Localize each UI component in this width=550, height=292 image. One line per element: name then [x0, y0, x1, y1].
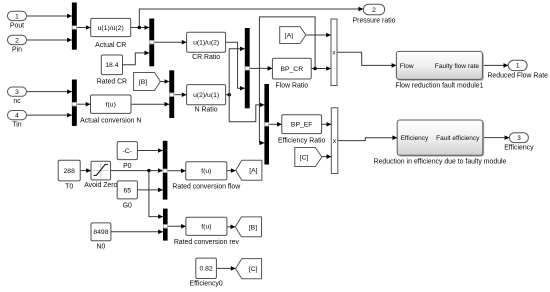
svg-text:Efficiency: Efficiency — [504, 145, 534, 152]
svg-text:N0: N0 — [97, 243, 106, 250]
svg-text:288: 288 — [64, 168, 76, 175]
wire Product1 to Flow subsystem — [337, 52, 396, 65]
svg-text:Reduction in efficiency due to: Reduction in efficiency due to faulty mo… — [374, 158, 507, 165]
wire Rated CR to Mux3 — [123, 53, 150, 65]
svg-text:P0: P0 — [123, 163, 132, 170]
wire Flow subsystem to outport 1 — [482, 64, 508, 66]
svg-text:1: 1 — [15, 13, 19, 20]
wire Rated conversion rev to Goto [B] — [227, 226, 235, 228]
goto tag [C] — [236, 259, 262, 279]
svg-text:Avoid Zero: Avoid Zero — [84, 182, 117, 189]
mux Mux7 (P0, T0, G0) — [163, 141, 168, 200]
svg-text:Tin: Tin — [12, 122, 21, 129]
svg-text:Rated conversion flow: Rated conversion flow — [172, 184, 240, 191]
junction on Avoid Zero output — [147, 169, 150, 172]
svg-text:Actual conversion N: Actual conversion N — [80, 117, 141, 124]
svg-text:[B]: [B] — [139, 79, 147, 86]
junction on N Ratio output — [228, 93, 231, 96]
svg-text:4: 4 — [15, 112, 19, 119]
wire G0 to Mux7 — [137, 189, 162, 191]
wire Tin to Mux2 — [27, 114, 72, 116]
wire Avoid Zero down to Mux8 — [149, 171, 163, 217]
svg-text:BP_EF: BP_EF — [291, 122, 313, 129]
fcn block N Ratio — [187, 85, 226, 105]
from tag [C] — [295, 148, 322, 167]
svg-text:Pout: Pout — [10, 22, 24, 29]
from tag [B] — [134, 73, 161, 91]
outport 1 Reduced Flow Rate — [508, 60, 527, 70]
mux Mux4 ([B], conversion N) — [169, 70, 174, 118]
lookup block BP_CR — [272, 58, 311, 79]
constant T0 (288) — [58, 160, 80, 181]
mux Mux5 (N Ratio, CR Ratio) — [245, 28, 250, 108]
svg-text:65: 65 — [124, 187, 132, 194]
svg-text:u(1)/u(2): u(1)/u(2) — [98, 25, 124, 32]
saturation block Avoid Zero — [91, 161, 111, 180]
from tag [A] — [280, 27, 306, 44]
wire Pin to Mux1 — [27, 39, 72, 41]
wire Efficiency0 to Goto [C] — [216, 267, 235, 269]
wire Efficiency subsystem to outport 3 — [483, 137, 510, 139]
svg-text:Fault efficiency: Fault efficiency — [436, 135, 480, 142]
constant N0 (8498) — [91, 223, 111, 241]
wire Rated conversion flow to Goto [A] — [227, 170, 236, 172]
junction on Actual CR output — [138, 26, 141, 29]
svg-text:Actual CR: Actual CR — [95, 42, 126, 49]
wire Actual conversion N to Mux4 — [131, 103, 169, 105]
svg-text:N Ratio: N Ratio — [195, 107, 218, 114]
subsystem Reduction in efficiency due to faulty module — [399, 121, 485, 156]
svg-text:u(1)/u(2): u(1)/u(2) — [193, 40, 219, 47]
mux Mux2 (nc,Tin) — [72, 80, 77, 126]
svg-text:2: 2 — [372, 7, 376, 14]
wire branch to Pressure ratio outport — [139, 9, 363, 28]
wire P0 to Mux7 — [137, 150, 162, 152]
wire BP_EF to Product2 — [322, 123, 332, 125]
wire T0 to Avoid Zero — [80, 170, 91, 172]
wire Actual CR to Mux3 — [131, 27, 150, 29]
svg-text:Efficiency Ratio: Efficiency Ratio — [278, 137, 326, 144]
wire Mux2 to Actual conversion N — [77, 103, 91, 105]
constant G0 (65) — [117, 181, 137, 199]
svg-text:[A]: [A] — [285, 32, 293, 39]
constant Efficiency0 (0.82) — [196, 258, 217, 278]
subsystem Flow reduction fault module1 — [398, 53, 484, 81]
wire Mux6 to BP_EF — [269, 123, 282, 125]
product block Product2 — [331, 108, 338, 174]
svg-text:Flow reduction fault module1: Flow reduction fault module1 — [395, 83, 483, 90]
fcn block Rated conversion rev — [186, 217, 227, 235]
svg-text:-C-: -C- — [123, 148, 132, 155]
wire From [A] to Product1 — [306, 34, 331, 36]
svg-text:[C]: [C] — [300, 154, 309, 161]
svg-text:CR Ratio: CR Ratio — [192, 54, 220, 61]
wire Pout to Mux1 — [27, 15, 72, 17]
goto tag [B] — [235, 217, 261, 237]
svg-text:3: 3 — [15, 89, 19, 96]
inport 4 Tin — [8, 111, 27, 120]
wire N Ratio zigzag to Mux6 upper input — [229, 95, 264, 122]
mux Mux6 (N Ratio, Flow Ratio) — [264, 84, 269, 165]
wire N Ratio output stub — [226, 94, 230, 96]
svg-text:T0: T0 — [65, 184, 73, 191]
wire Mux7 to Rated conversion flow — [167, 170, 185, 172]
svg-text:f(u): f(u) — [201, 224, 211, 231]
svg-text:G0: G0 — [123, 202, 132, 209]
svg-text:[C]: [C] — [249, 266, 258, 273]
constant P0 (-C-) — [117, 142, 137, 160]
svg-text:Faulty flow rate: Faulty flow rate — [435, 63, 479, 70]
wire BP_CR loop to Mux6 lower input — [259, 17, 315, 143]
wire N Ratio up to Mux5 upper input — [229, 49, 245, 95]
svg-text:2: 2 — [15, 37, 19, 44]
fcn block Actual conversion N — [91, 95, 132, 113]
svg-text:3: 3 — [517, 135, 521, 142]
svg-text:Efficiency0: Efficiency0 — [189, 281, 222, 288]
wire BP_CR to Product1 — [311, 68, 331, 70]
wire From [C] to Product2 — [322, 156, 331, 158]
wire Avoid Zero to Mux7 — [111, 170, 163, 172]
svg-text:Flow Ratio: Flow Ratio — [276, 82, 309, 89]
mux Mux3 (Actual CR, Rated CR) — [149, 19, 154, 67]
wire Mux4 to N Ratio — [174, 94, 186, 96]
svg-text:BP_CR: BP_CR — [280, 66, 303, 73]
svg-text:Rated CR: Rated CR — [97, 78, 127, 85]
wire From [B] to Mux4 — [160, 81, 169, 83]
svg-text:18.4: 18.4 — [105, 62, 118, 69]
wire Mux8 to Rated conversion rev — [168, 225, 186, 227]
lookup block BP_EF — [282, 115, 322, 134]
mux Mux1 (Pout,Pin) — [72, 3, 77, 50]
svg-text:[B]: [B] — [249, 224, 257, 231]
svg-text:8498: 8498 — [93, 229, 108, 236]
svg-text:Efficiency: Efficiency — [401, 135, 429, 142]
goto tag [A] — [236, 160, 262, 180]
svg-text:f(u): f(u) — [201, 168, 211, 175]
fcn block Rated conversion flow — [186, 162, 227, 180]
junction on BP_CR output — [313, 67, 316, 70]
inport 3 nc — [8, 87, 27, 96]
svg-text:[A]: [A] — [249, 168, 257, 175]
fcn block Actual CR — [91, 18, 131, 36]
svg-text:Flow: Flow — [400, 63, 414, 70]
outport 3 Efficiency — [509, 133, 528, 143]
inport 1 Pout — [8, 11, 27, 20]
svg-text:Reduced Flow Rate: Reduced Flow Rate — [487, 73, 548, 80]
svg-text:Pin: Pin — [12, 46, 22, 53]
wire nc to Mux2 — [27, 91, 72, 93]
constant Rated CR (18.4) — [101, 55, 122, 75]
svg-text:Pressure ratio: Pressure ratio — [353, 18, 396, 25]
wire CR Ratio down to Mux5 lower input — [226, 42, 245, 88]
svg-text:u(2)/u(1): u(2)/u(1) — [193, 92, 219, 99]
fcn block CR Ratio — [187, 32, 226, 52]
wire Mux5 to BP_CR — [250, 67, 273, 69]
wire N0 to Mux8 — [111, 231, 163, 233]
svg-text:Rated conversion rev: Rated conversion rev — [174, 239, 240, 246]
mux Mux8 (T0, N0) — [163, 209, 168, 241]
svg-text:0.82: 0.82 — [199, 266, 212, 273]
product block Product1 — [331, 19, 337, 86]
inport 2 Pin — [8, 35, 27, 44]
svg-text:nc: nc — [13, 98, 21, 105]
wire Mux1 to Actual CR — [77, 27, 91, 29]
svg-text:1: 1 — [516, 63, 520, 70]
wire Product2 to Efficiency subsystem — [338, 138, 397, 141]
outport 2 Pressure ratio — [363, 4, 384, 15]
svg-text:f(u): f(u) — [106, 102, 116, 109]
wire Mux3 to CR Ratio — [154, 41, 186, 43]
